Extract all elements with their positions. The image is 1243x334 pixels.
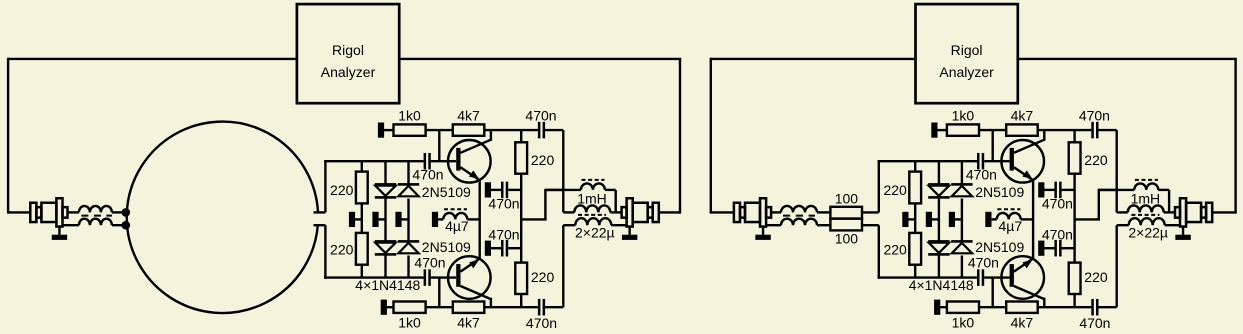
ground at output BNC (right) bbox=[1182, 227, 1184, 235]
resistor 220 (input upper, right) bbox=[909, 172, 921, 204]
transformer input secondary (left) bbox=[63, 224, 79, 226]
wire 220-chain vertical (right) bbox=[914, 161, 916, 171]
wire 4k7 to Q1 collector (right) bbox=[1038, 129, 1092, 131]
svg-text:1mH: 1mH bbox=[577, 190, 607, 206]
loop antenna (circle) bbox=[127, 122, 318, 313]
wire analyzer right lead (left) bbox=[399, 58, 681, 60]
wire Q1-emitter to Q2-collector (left) bbox=[479, 180, 481, 258]
svg-text:100: 100 bbox=[835, 231, 859, 247]
inductor 2x22u winding B (right) bbox=[1117, 224, 1129, 226]
wire top base rail (right) bbox=[878, 160, 977, 162]
resistor 220 (output lower, left) bbox=[515, 263, 527, 294]
svg-text:1k0: 1k0 bbox=[398, 314, 421, 330]
diode 1N4148 D3 (right) bbox=[951, 183, 972, 186]
wire 4k7 to Q1 collector (left) bbox=[484, 129, 538, 131]
wire to Q2 base (right) bbox=[984, 276, 1009, 278]
diode 1N4148 D3 (left) bbox=[398, 183, 419, 186]
transistor Q2 2N5109 (lower, right) bbox=[1001, 256, 1044, 299]
wire output chain vertical (left) bbox=[520, 174, 522, 263]
svg-text:2N5109: 2N5109 bbox=[975, 239, 1024, 255]
wire 1k0 to 4k7 (top, left) bbox=[426, 129, 453, 131]
connector BNC input (right) bbox=[734, 203, 740, 222]
wire to Q1 base (right) bbox=[984, 160, 1009, 162]
capacitor 470n (upper base, right) bbox=[977, 153, 980, 170]
wire 1k0 to 4k7 (bottom, right) bbox=[979, 306, 1006, 308]
svg-text:2N5109: 2N5109 bbox=[422, 184, 471, 200]
wire bottom cap to output transformer (right) bbox=[1099, 306, 1117, 308]
svg-text:4k7: 4k7 bbox=[457, 314, 480, 330]
diode 1N4148 D2 (right) bbox=[928, 240, 949, 243]
wire junction down to top rail (left) bbox=[438, 130, 440, 161]
wire input-net left vertical upper (left) bbox=[324, 160, 326, 212]
wire junction up to bottom rail (right) bbox=[992, 278, 994, 308]
svg-text:2N5109: 2N5109 bbox=[422, 239, 471, 255]
wire 220-chain vertical (left) bbox=[361, 161, 363, 171]
capacitor 470n (bottom coupling, right) bbox=[1091, 299, 1094, 316]
wire Z-link to 1mH (right) bbox=[1075, 190, 1117, 220]
wire output BNC to analyzer (right) bbox=[1212, 211, 1235, 213]
wire top cap to output transformer (left) bbox=[545, 129, 563, 131]
svg-text:4µ7: 4µ7 bbox=[445, 218, 469, 234]
ground at input BNC (left) bbox=[58, 227, 60, 235]
svg-text:470n: 470n bbox=[526, 315, 557, 331]
supply tap (bottom, left) bbox=[381, 300, 387, 315]
capacitor 470n (mid upper, right) bbox=[1054, 182, 1057, 199]
capacitor 470n (upper base, left) bbox=[424, 153, 427, 170]
tap on 220-chain midpoint (left) bbox=[349, 212, 355, 227]
wire output BNC to analyzer (left) bbox=[659, 211, 680, 213]
svg-text:4µ7: 4µ7 bbox=[998, 218, 1022, 234]
svg-text:220: 220 bbox=[330, 182, 354, 198]
wire loop to input-net upper stub (left) bbox=[314, 211, 326, 213]
inductor 1mH (right) bbox=[1099, 189, 1135, 191]
supply tap (top, left) bbox=[378, 123, 384, 138]
transformer core dashes (right) bbox=[783, 215, 815, 217]
resistor 100 (upper, right) bbox=[830, 207, 862, 219]
transformer input primary (left) bbox=[68, 211, 79, 213]
supply tap (mid lower, left) bbox=[485, 241, 491, 256]
svg-text:100: 100 bbox=[835, 190, 859, 206]
tap on diode-chain-1 midpoint (left) bbox=[372, 212, 378, 227]
wire to Q2 base (left) bbox=[431, 276, 456, 278]
wire 4k7 to Q2 collector (right) bbox=[1038, 306, 1092, 308]
transformer input primary (right) bbox=[771, 211, 781, 213]
connector BNC input (left) bbox=[30, 203, 36, 222]
junction node lower (loop) bbox=[122, 221, 131, 230]
inductor 4u7 (right) bbox=[997, 213, 1021, 220]
capacitor 470n (lower base, left) bbox=[424, 269, 427, 286]
svg-text:2×22µ: 2×22µ bbox=[1128, 224, 1168, 240]
inductor 4u7 (left) bbox=[443, 213, 467, 220]
transformer input secondary (right) bbox=[766, 224, 781, 226]
resistor 220 (output upper, right) bbox=[1073, 130, 1075, 142]
capacitor 470n (top coupling, right) bbox=[1091, 122, 1094, 139]
svg-text:1k0: 1k0 bbox=[952, 108, 975, 124]
supply tap (mid upper, left) bbox=[485, 182, 491, 197]
svg-text:4k7: 4k7 bbox=[1011, 314, 1034, 330]
svg-text:4k7: 4k7 bbox=[1011, 108, 1034, 124]
box Rigol Analyzer bbox=[916, 4, 1018, 103]
svg-text:220: 220 bbox=[1084, 152, 1108, 168]
wire diode-chain-2 vertical (left) bbox=[407, 161, 409, 183]
svg-text:470n: 470n bbox=[412, 167, 443, 183]
resistor 100 (lower, right) bbox=[830, 219, 862, 231]
capacitor 470n (bottom coupling, left) bbox=[538, 299, 541, 316]
tap on diode-chain-2 midpoint (right) bbox=[949, 212, 955, 227]
connector BNC output (left) bbox=[622, 207, 627, 218]
wire 100s to input network (right) bbox=[862, 211, 879, 213]
supply tap (mid upper, right) bbox=[1038, 182, 1044, 197]
svg-text:470n: 470n bbox=[414, 254, 445, 270]
resistor 4k7 (top, left) bbox=[453, 124, 485, 135]
transistor Q2 2N5109 (lower, left) bbox=[448, 256, 491, 299]
svg-text:220: 220 bbox=[330, 242, 354, 258]
wire bottom base rail (left) bbox=[324, 276, 423, 278]
svg-text:470n: 470n bbox=[1079, 315, 1110, 331]
wire output chain vertical (right) bbox=[1073, 174, 1075, 263]
svg-text:2×22µ: 2×22µ bbox=[575, 224, 615, 240]
wire input-net left vertical lower (left) bbox=[324, 225, 326, 279]
svg-text:2N5109: 2N5109 bbox=[975, 184, 1024, 200]
svg-text:220: 220 bbox=[531, 152, 555, 168]
resistor 4k7 (bottom, left) bbox=[453, 302, 485, 313]
svg-text:470n: 470n bbox=[1042, 196, 1073, 212]
tap on diode-chain-1 midpoint (right) bbox=[926, 212, 932, 227]
wire top cap to output transformer (right) bbox=[1099, 129, 1117, 131]
svg-text:4k7: 4k7 bbox=[457, 108, 480, 124]
svg-text:Rigol: Rigol bbox=[332, 42, 364, 58]
resistor 220 (output upper, left) bbox=[520, 130, 522, 142]
resistor 1k0 (bottom, left) bbox=[394, 302, 426, 313]
svg-text:470n: 470n bbox=[966, 167, 997, 183]
svg-text:220: 220 bbox=[531, 269, 555, 285]
wire to Q1 base (left) bbox=[431, 160, 456, 162]
ground at input BNC (right) bbox=[762, 227, 764, 235]
inductor 2x22u winding B (left) bbox=[563, 224, 575, 226]
wire top base rail (left) bbox=[324, 160, 423, 162]
wire input-net left vertical upper (right) bbox=[878, 160, 880, 212]
wire bottom base rail (right) bbox=[878, 276, 977, 278]
wire 1k0 to 4k7 (top, right) bbox=[979, 129, 1006, 131]
svg-text:Rigol: Rigol bbox=[951, 42, 983, 58]
inductor 2x22u winding A (right) bbox=[1117, 211, 1128, 213]
wire 1k0 to 4k7 (bottom, left) bbox=[426, 306, 453, 308]
wire junction down to top rail (right) bbox=[992, 130, 994, 161]
svg-text:4×1N4148: 4×1N4148 bbox=[355, 277, 420, 293]
capacitor 470n (top coupling, left) bbox=[538, 122, 541, 139]
resistor 220 (input lower, right) bbox=[909, 233, 921, 265]
transformer core dashes (left) bbox=[81, 215, 112, 217]
svg-text:470n: 470n bbox=[1042, 226, 1073, 242]
svg-text:220: 220 bbox=[883, 242, 907, 258]
resistor 220 (input lower, left) bbox=[356, 233, 368, 265]
diode 1N4148 D4 (right) bbox=[951, 240, 972, 243]
wire analyzer left lead (left) bbox=[8, 58, 297, 60]
svg-text:Analyzer: Analyzer bbox=[321, 64, 376, 80]
wire analyzer right lead (right) bbox=[1018, 58, 1237, 60]
supply tap (top, right) bbox=[931, 123, 937, 138]
svg-text:1mH: 1mH bbox=[1131, 190, 1161, 206]
resistor 1k0 (bottom, right) bbox=[947, 302, 979, 313]
inductor 1mH (left) bbox=[545, 189, 581, 191]
resistor 4k7 (top, right) bbox=[1006, 124, 1037, 135]
supply tap for 4u7 (right) bbox=[985, 212, 991, 227]
svg-text:Analyzer: Analyzer bbox=[939, 64, 994, 80]
wire Z-link to 1mH (left) bbox=[521, 190, 563, 220]
wire analyzer left lead (right) bbox=[711, 58, 916, 60]
svg-text:1k0: 1k0 bbox=[398, 108, 421, 124]
wire input-net left vertical lower (right) bbox=[878, 225, 880, 279]
svg-text:4×1N4148: 4×1N4148 bbox=[909, 277, 974, 293]
wire loop to input-net lower stub (left) bbox=[314, 224, 326, 226]
diode 1N4148 D2 (left) bbox=[375, 240, 396, 243]
wire junction up to bottom rail (left) bbox=[438, 278, 440, 308]
wire Q1-emitter to Q2-collector (right) bbox=[1032, 180, 1034, 258]
svg-text:470n: 470n bbox=[968, 254, 999, 270]
transistor Q1 2N5109 (upper, right) bbox=[1001, 140, 1044, 183]
svg-text:470n: 470n bbox=[525, 108, 556, 124]
core dashes 2x22u (left) bbox=[578, 214, 606, 216]
capacitor 470n (mid lower, left) bbox=[501, 240, 504, 257]
supply tap for 4u7 (left) bbox=[432, 212, 438, 227]
tap on 220-chain midpoint (right) bbox=[902, 212, 908, 227]
wire diode-chain-1 vertical (left) bbox=[384, 161, 386, 183]
resistor 1k0 (top, right) bbox=[947, 124, 979, 135]
inductor 2x22u winding A (left) bbox=[563, 211, 574, 213]
svg-text:470n: 470n bbox=[488, 226, 519, 242]
resistor 220 (input upper, left) bbox=[356, 172, 368, 204]
tap on diode-chain-2 midpoint (left) bbox=[395, 212, 401, 227]
resistor 220 (output lower, right) bbox=[1069, 263, 1081, 294]
transistor Q1 2N5109 (upper, left) bbox=[448, 140, 491, 183]
capacitor 470n (lower base, right) bbox=[977, 269, 980, 286]
svg-text:470n: 470n bbox=[1079, 108, 1110, 124]
resistor 1k0 (top, left) bbox=[394, 124, 426, 135]
wire diode-chain-1 vertical (right) bbox=[938, 161, 940, 183]
box Rigol Analyzer bbox=[297, 4, 399, 103]
diode 1N4148 D1 (left) bbox=[375, 183, 396, 186]
capacitor 470n (mid lower, right) bbox=[1054, 240, 1057, 257]
junction node upper (loop) bbox=[122, 208, 131, 217]
diode 1N4148 D4 (left) bbox=[398, 240, 419, 243]
wire bottom cap to output transformer (left) bbox=[545, 306, 563, 308]
supply tap (bottom, right) bbox=[934, 300, 940, 315]
core dashes 2x22u (right) bbox=[1131, 214, 1159, 216]
wire 4k7 to Q2 collector (left) bbox=[484, 306, 538, 308]
wire diode-chain-2 vertical (right) bbox=[961, 161, 963, 183]
svg-text:220: 220 bbox=[1084, 269, 1108, 285]
diode 1N4148 D1 (right) bbox=[928, 183, 949, 186]
svg-text:470n: 470n bbox=[488, 196, 519, 212]
supply tap (mid lower, right) bbox=[1038, 241, 1044, 256]
resistor 4k7 (bottom, right) bbox=[1006, 302, 1037, 313]
svg-text:220: 220 bbox=[883, 182, 907, 198]
svg-text:1k0: 1k0 bbox=[952, 314, 975, 330]
connector BNC output (right) bbox=[1175, 207, 1180, 218]
ground at output BNC (left) bbox=[628, 227, 630, 235]
capacitor 470n (mid upper, left) bbox=[501, 182, 504, 199]
